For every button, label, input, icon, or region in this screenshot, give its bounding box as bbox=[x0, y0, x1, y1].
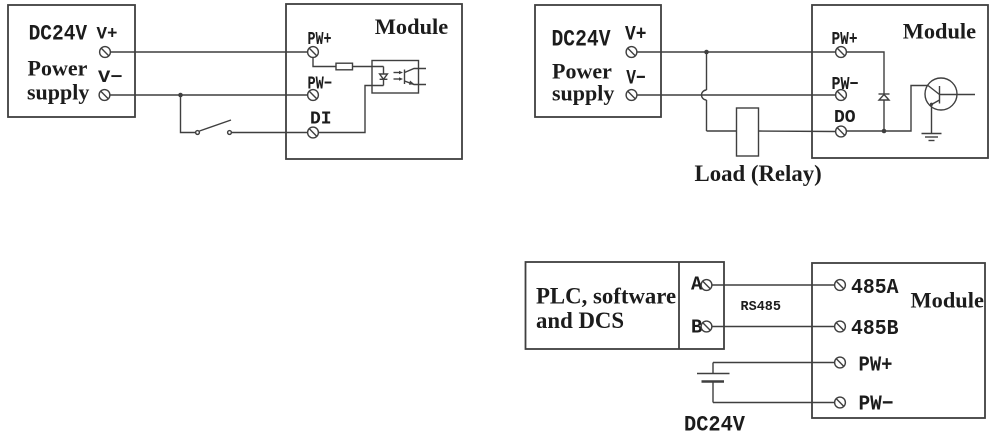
svg-text:Module: Module bbox=[911, 288, 984, 313]
terminal 485B (M3) bbox=[835, 321, 846, 332]
svg-text:DC24V: DC24V bbox=[29, 21, 88, 46]
svg-text:DO: DO bbox=[834, 108, 856, 128]
wire relay to DO bbox=[759, 130, 836, 133]
svg-text:Module: Module bbox=[903, 19, 976, 44]
svg-text:Module: Module bbox=[375, 14, 448, 39]
wire emitter to ground bbox=[931, 105, 933, 134]
svg-text:V−: V− bbox=[98, 68, 123, 88]
wire PW+ to diode branch bbox=[846, 52, 884, 94]
svg-text:PW−: PW− bbox=[859, 393, 894, 417]
wire B to 485B bbox=[712, 326, 835, 328]
svg-text:Load (Relay): Load (Relay) bbox=[695, 161, 822, 186]
terminal DO (M2) bbox=[836, 126, 847, 137]
terminal V- (PS2) bbox=[626, 90, 637, 101]
wire battery to PW- bbox=[713, 402, 835, 404]
svg-text:485A: 485A bbox=[851, 276, 899, 300]
PLC box terminal divider bbox=[678, 262, 680, 349]
terminal 485A (M3) bbox=[835, 280, 846, 291]
junction node on V- wire bbox=[178, 93, 183, 98]
svg-text:PW+: PW+ bbox=[859, 354, 893, 378]
svg-text:Power: Power bbox=[28, 56, 88, 81]
optocoupler U1 LED bbox=[380, 67, 388, 86]
svg-text:DC24V: DC24V bbox=[684, 413, 746, 438]
relay load K1 bbox=[737, 108, 759, 156]
switch S1 bbox=[196, 120, 232, 134]
terminal V+ (PS1) bbox=[100, 47, 111, 58]
module box M2 bbox=[812, 5, 988, 158]
label Power supply (PS2) bbox=[552, 58, 614, 105]
terminal V+ (PS2) bbox=[626, 47, 637, 58]
svg-text:V−: V− bbox=[626, 67, 646, 90]
wire battery to PW+ bbox=[713, 362, 835, 364]
power supply box PS2 bbox=[535, 5, 661, 117]
terminal DI (M1) bbox=[308, 127, 319, 138]
wire V+ to PW+ bbox=[110, 51, 307, 53]
optocoupler U1 light arrows bbox=[394, 71, 404, 81]
terminal PW- (M1) bbox=[308, 90, 319, 101]
wire DI to optocoupler cathode bbox=[318, 86, 383, 133]
power supply box PS1 bbox=[8, 5, 135, 117]
svg-text:RS485: RS485 bbox=[741, 300, 782, 315]
terminal PW+ (M2) bbox=[836, 47, 847, 58]
ground symbol bbox=[922, 134, 942, 141]
terminal A (PLC) bbox=[701, 280, 712, 291]
junction node on V+ wire (2) bbox=[704, 50, 709, 55]
PLC box bbox=[526, 262, 725, 349]
terminal B (PLC) bbox=[701, 321, 712, 332]
svg-text:V+: V+ bbox=[625, 24, 647, 47]
wire junction down to switch bbox=[181, 95, 196, 133]
optocoupler U1 phototransistor bbox=[405, 69, 427, 85]
terminal PW+ (M3) bbox=[835, 357, 846, 368]
terminal PW- (M2) bbox=[836, 90, 847, 101]
junction node on DO wire bbox=[882, 129, 887, 134]
svg-text:and DCS: and DCS bbox=[536, 308, 624, 333]
terminal PW+ (M1) bbox=[308, 47, 319, 58]
transistor Q1 bbox=[925, 78, 975, 110]
svg-text:485B: 485B bbox=[851, 317, 899, 341]
wire V+ to PW+ (2) bbox=[637, 51, 836, 53]
wire V- to PW- (2) bbox=[637, 94, 836, 96]
wire PW+ down to resistor bbox=[313, 57, 336, 66]
wire junction down with crossing hop bbox=[702, 52, 737, 131]
wire resistor to optocoupler anode bbox=[353, 66, 384, 68]
svg-text:PLC, software: PLC, software bbox=[536, 283, 676, 308]
wire V- to PW- bbox=[110, 94, 308, 96]
optocoupler U1 body bbox=[372, 61, 419, 94]
terminal PW- (M3) bbox=[835, 397, 846, 408]
resistor R1 bbox=[336, 63, 353, 70]
label PLC, software and DCS bbox=[536, 283, 676, 333]
wire DO to transistor base bbox=[846, 86, 928, 132]
label Power supply (PS1) bbox=[27, 56, 89, 105]
svg-text:DC24V: DC24V bbox=[552, 26, 612, 53]
terminal V- (PS1) bbox=[99, 90, 110, 101]
svg-text:V+: V+ bbox=[97, 25, 118, 45]
svg-text:supply: supply bbox=[27, 80, 89, 105]
battery BT1 bbox=[697, 363, 730, 403]
svg-text:supply: supply bbox=[552, 81, 614, 106]
wire A to 485A bbox=[712, 284, 835, 286]
svg-text:PW+: PW+ bbox=[832, 30, 858, 50]
module box M1 bbox=[286, 4, 462, 159]
wire switch to DI bbox=[232, 132, 308, 134]
module box M3 bbox=[812, 263, 985, 418]
diode D1 bbox=[879, 94, 890, 131]
svg-text:PW−: PW− bbox=[308, 75, 333, 95]
